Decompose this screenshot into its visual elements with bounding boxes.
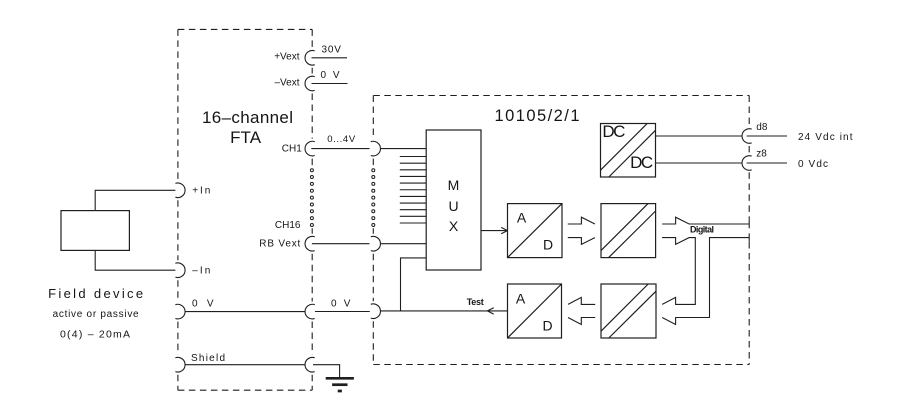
wire z8 to 0 Vdc — [747, 162, 787, 164]
svg-text:U: U — [448, 198, 458, 214]
terminal 0V (FTA left edge) — [175, 304, 185, 319]
svg-text:M: M — [448, 177, 460, 193]
10105 dashed enclosure right edge segments — [748, 96, 750, 365]
FTA dashed enclosure right edge segments — [311, 29, 313, 390]
svg-text:–Vext: –Vext — [274, 78, 299, 89]
ground symbol — [326, 377, 354, 380]
svg-text:D: D — [543, 237, 553, 253]
svg-text:Field device: Field device — [48, 286, 143, 301]
isolation block (test) — [601, 284, 656, 338]
wire CH1 between FTA and 10105 — [311, 148, 369, 150]
svg-text:24 Vdc int: 24 Vdc int — [798, 132, 853, 143]
svg-text:d8: d8 — [756, 122, 768, 133]
channel dots FTA edge — [310, 169, 313, 227]
svg-text:CH1: CH1 — [282, 144, 302, 155]
terminal Shield (FTA left edge) — [175, 357, 185, 372]
svg-text:0 V: 0 V — [192, 298, 214, 309]
wire RB Vext into MUX — [381, 243, 426, 245]
FTA dashed enclosure top edge — [178, 28, 312, 30]
svg-text:z8: z8 — [756, 148, 767, 159]
A/D converter block (signal) — [508, 204, 563, 258]
10105 dashed enclosure top edge — [373, 95, 749, 97]
A/D converter block (test) — [508, 284, 562, 338]
wire d8 to 24 Vdc int — [747, 135, 787, 137]
bus arrow A/D to isolation lower — [568, 238, 595, 245]
svg-text:Digital: Digital — [690, 225, 714, 235]
terminal CH1 (FTA right edge) — [305, 141, 315, 156]
svg-text:0(4) – 20mA: 0(4) – 20mA — [60, 328, 130, 340]
wire Shield inside FTA — [185, 364, 305, 366]
svg-text:A: A — [517, 210, 527, 226]
svg-text:+In: +In — [192, 185, 210, 196]
FTA dashed enclosure left edge segments — [177, 29, 179, 390]
svg-text:D: D — [542, 318, 552, 334]
terminal Shield (FTA right edge) — [305, 357, 315, 372]
wire field device - to -In — [95, 250, 175, 270]
wire RB Vext between FTA and 10105 — [312, 243, 370, 245]
svg-text:0...4V: 0...4V — [327, 134, 356, 145]
wire field device + to +In — [95, 190, 175, 210]
terminal -In (FTA left edge) — [175, 263, 185, 278]
wire MUX output to A/D — [481, 227, 508, 233]
DC/DC diagonals — [601, 124, 656, 178]
svg-text:16–channel: 16–channel — [202, 108, 293, 127]
svg-text:X: X — [449, 218, 459, 234]
svg-text:DC: DC — [630, 153, 653, 172]
bus wire Digital return from border — [662, 238, 749, 325]
border tick at Digital wire ends — [748, 220, 750, 242]
wire DC/DC output to z8 — [656, 162, 743, 164]
MUX block U1 — [426, 130, 481, 270]
svg-text:–In: –In — [192, 265, 210, 276]
svg-text:Shield: Shield — [191, 353, 225, 364]
svg-text:0 Vdc: 0 Vdc — [798, 159, 828, 170]
svg-text:0 V: 0 V — [331, 299, 351, 310]
isolation block (signal) — [601, 204, 656, 258]
svg-text:10105/2/1: 10105/2/1 — [495, 107, 580, 125]
terminal RB Vext (FTA right edge) — [305, 236, 315, 251]
wire 0 V / Test line inside 10105 — [381, 310, 508, 312]
svg-text:active or passive: active or passive — [53, 309, 139, 320]
bus arrow test isolation to A/D lower — [568, 318, 595, 325]
terminal RB Vext (10105 left edge) — [371, 236, 381, 251]
terminal z8 (10105 right edge) — [742, 156, 752, 171]
bus arrow A/D to isolation upper — [568, 217, 595, 224]
arrowhead Test wire — [487, 308, 493, 314]
svg-text:+Vext: +Vext — [274, 52, 300, 63]
svg-text:FTA: FTA — [230, 128, 262, 147]
isolation diagonals (test) — [601, 284, 656, 338]
svg-text:RB Vext: RB Vext — [259, 239, 300, 250]
bus arrow Digital loop to test isolation — [662, 238, 695, 305]
bus arrow isolation to Digital out upper — [662, 217, 749, 224]
A/D diagonal (signal) — [508, 204, 563, 258]
DC/DC converter block — [601, 124, 656, 178]
wire DC/DC output to d8 — [656, 135, 743, 137]
wire 0 V inside FTA — [185, 311, 305, 313]
svg-text:30V: 30V — [321, 45, 341, 56]
wire 30V supply from +Vext — [312, 57, 348, 59]
svg-text:CH16: CH16 — [275, 220, 301, 231]
wire Shield to ground — [313, 365, 340, 378]
A/D diagonal (test) — [508, 284, 562, 338]
FTA dashed enclosure bottom edge — [178, 389, 312, 391]
wire 0 V between FTA and 10105 — [315, 311, 370, 313]
svg-text:A: A — [516, 291, 526, 307]
isolation diagonals (signal) — [601, 204, 656, 258]
field device box — [61, 211, 129, 251]
svg-text:Test: Test — [467, 297, 484, 307]
terminal +In (FTA left edge) — [175, 183, 185, 198]
wire junction riser to MUX — [401, 258, 427, 311]
wire 0 V supply from -Vext — [312, 83, 348, 85]
wire channel comb into MUX — [400, 157, 426, 224]
channel dots 10105 edge — [372, 169, 375, 227]
terminal d8 (10105 right edge) — [742, 129, 752, 144]
svg-text:0 V: 0 V — [321, 70, 340, 81]
terminal +Vext (FTA right edge) — [305, 51, 315, 66]
10105 dashed enclosure left edge segments — [372, 96, 374, 365]
svg-text:DC: DC — [602, 122, 625, 141]
10105 dashed enclosure bottom edge — [373, 364, 749, 366]
terminal -Vext (FTA right edge) — [305, 76, 315, 91]
terminal 0V (FTA right edge) — [305, 304, 315, 319]
terminal CH1 (10105 left edge) — [371, 141, 381, 156]
terminal 0V (10105 left edge) — [371, 304, 381, 319]
bus arrow test isolation to A/D upper — [568, 297, 595, 304]
wire CH1 into MUX — [381, 148, 426, 150]
